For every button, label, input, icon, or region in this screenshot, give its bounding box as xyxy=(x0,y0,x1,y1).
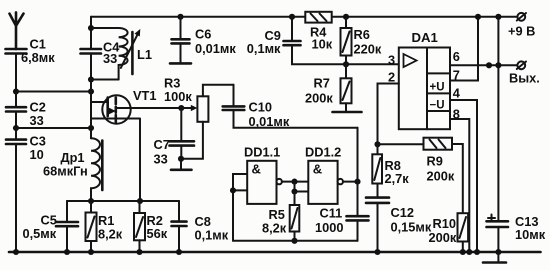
svg-text:R6: R6 xyxy=(354,27,370,42)
capacitor C12 xyxy=(366,198,432,255)
op-amp DA1 xyxy=(399,30,450,129)
svg-text:0,1мк: 0,1мк xyxy=(247,41,281,56)
svg-text:R7: R7 xyxy=(314,76,330,91)
wire: DD1.1 out to DD1.2 inputs xyxy=(282,179,308,195)
DA1 pin 3 label xyxy=(388,53,395,68)
svg-text:1000: 1000 xyxy=(315,220,343,235)
capacitor C11 xyxy=(315,128,369,241)
svg-text:L1: L1 xyxy=(137,47,152,62)
svg-text:R10: R10 xyxy=(433,216,456,231)
DA1 pin 8 wire xyxy=(450,107,472,256)
svg-text:VT1: VT1 xyxy=(133,88,156,103)
ground under R7 xyxy=(333,111,362,114)
svg-text:10: 10 xyxy=(30,147,44,162)
svg-text:−U: −U xyxy=(430,100,445,112)
svg-text:220к: 220к xyxy=(354,42,382,57)
resistor R1 xyxy=(86,201,123,255)
DA1 pin 7 wire xyxy=(450,14,481,83)
capacitor C8 xyxy=(172,201,229,255)
svg-text:100к: 100к xyxy=(164,89,192,104)
svg-text:C11: C11 xyxy=(320,206,343,221)
svg-text:200к: 200к xyxy=(429,230,457,245)
transistor VT1 xyxy=(91,88,181,201)
logic gate DD1.2 xyxy=(305,145,343,204)
inductor Dr1 xyxy=(43,138,102,201)
svg-text:0,01мк: 0,01мк xyxy=(249,114,290,129)
terminal output xyxy=(509,61,540,85)
svg-text:2: 2 xyxy=(388,70,395,85)
svg-text:200к: 200к xyxy=(305,91,333,106)
node B: wire C2/C3 junction to gate column xyxy=(13,125,94,131)
capacitor C4 xyxy=(81,17,121,139)
DA1 pin 6 wire xyxy=(450,49,518,65)
antenna xyxy=(10,12,24,49)
svg-text:3: 3 xyxy=(388,53,395,68)
capacitor C7 xyxy=(154,108,195,169)
capacitor C2 xyxy=(6,92,46,129)
ground under C13 xyxy=(483,261,506,264)
resistor R6 xyxy=(341,14,382,68)
DA1 pin 2 wire xyxy=(378,70,399,145)
capacitor C10 xyxy=(223,85,358,129)
resistor R8 xyxy=(372,141,409,197)
svg-text:7: 7 xyxy=(453,68,460,83)
capacitor C6 xyxy=(172,14,237,63)
svg-text:DA1: DA1 xyxy=(412,30,438,45)
svg-text:C10: C10 xyxy=(249,100,272,115)
svg-text:0,15мк: 0,15мк xyxy=(391,220,432,235)
svg-text:0,01мк: 0,01мк xyxy=(195,41,236,56)
inductor L1 xyxy=(91,28,152,80)
bottom rail wire xyxy=(9,251,541,254)
capacitor C9 xyxy=(247,14,399,65)
svg-text:R9: R9 xyxy=(427,154,443,169)
resistor R5 xyxy=(262,192,299,244)
svg-text:10мк: 10мк xyxy=(515,227,546,242)
DA1 pin 4 wire xyxy=(450,86,480,256)
svg-text:&: & xyxy=(252,162,261,177)
capacitor C13 xyxy=(487,214,546,261)
svg-text:56к: 56к xyxy=(147,226,168,241)
svg-text:33: 33 xyxy=(30,113,44,128)
svg-text:33: 33 xyxy=(103,51,117,66)
svg-text:2,7к: 2,7к xyxy=(385,171,410,186)
terminal +9V xyxy=(508,13,535,39)
svg-text:8,2к: 8,2к xyxy=(98,227,123,242)
capacitor C5 xyxy=(23,201,79,255)
resistor R2 xyxy=(134,201,168,255)
top rail wire xyxy=(91,16,517,18)
wire: feedback bottom xyxy=(233,240,358,242)
svg-text:C6: C6 xyxy=(195,27,211,42)
svg-text:8,2к: 8,2к xyxy=(262,221,287,236)
ground under C7 node xyxy=(171,169,192,172)
wire: +9V feed to C13 xyxy=(486,14,502,222)
svg-text:68мкГн: 68мкГн xyxy=(43,164,88,179)
svg-text:6: 6 xyxy=(453,49,460,64)
wire: C5/R1/R2/C8 top node xyxy=(67,198,179,204)
svg-text:&: & xyxy=(313,162,322,177)
svg-text:10к: 10к xyxy=(312,37,333,52)
svg-text:+9 В: +9 В xyxy=(508,24,535,39)
resistor R10 xyxy=(429,213,469,255)
svg-text:6,8мк: 6,8мк xyxy=(21,50,55,65)
node A: wire C1/C2 junction to gate column xyxy=(13,88,94,94)
svg-text:DD1.2: DD1.2 xyxy=(305,145,341,160)
resistor R9 xyxy=(378,138,463,214)
svg-text:C12: C12 xyxy=(391,205,414,220)
svg-text:8: 8 xyxy=(453,107,460,122)
capacitor C3 xyxy=(6,128,46,255)
resistor R7 xyxy=(305,64,352,111)
svg-text:Вых.: Вых. xyxy=(509,71,540,86)
svg-text:0,5мк: 0,5мк xyxy=(23,226,57,241)
svg-text:0,1мк: 0,1мк xyxy=(195,228,229,243)
svg-text:DD1.1: DD1.1 xyxy=(244,145,280,160)
capacitor C1 xyxy=(6,37,56,92)
logic gate DD1.1 xyxy=(244,145,282,204)
resistor R4 xyxy=(305,12,332,52)
resistor R3 potentiometer xyxy=(164,76,234,159)
svg-text:+U: +U xyxy=(430,82,445,94)
ground under C6 xyxy=(170,62,191,65)
svg-text:200к: 200к xyxy=(427,169,455,184)
svg-text:4: 4 xyxy=(453,86,461,101)
wire: DD1.1 input bracket xyxy=(230,174,247,241)
wire: DD1.2 output node xyxy=(343,179,361,185)
svg-text:33: 33 xyxy=(154,152,168,167)
svg-text:C7: C7 xyxy=(154,137,170,152)
